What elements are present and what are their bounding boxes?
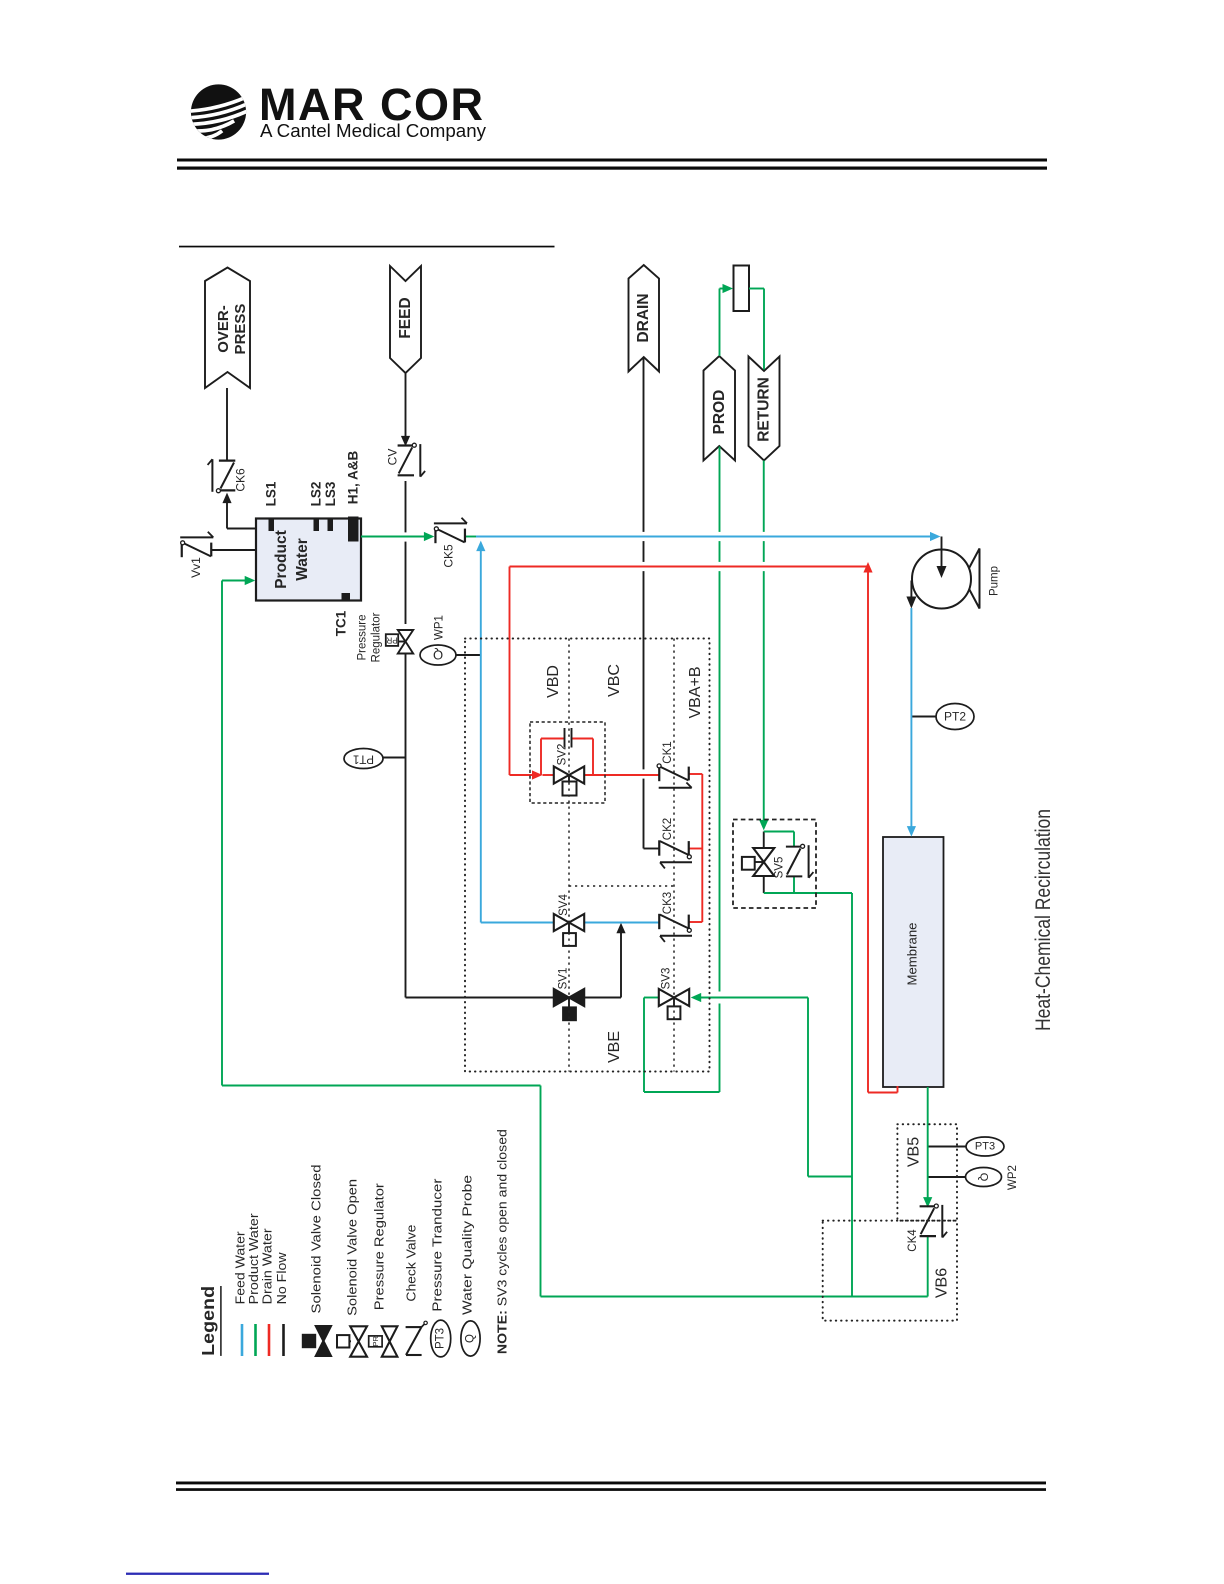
svg-text:OVER-: OVER- bbox=[215, 305, 232, 353]
svg-text:CK4: CK4 bbox=[907, 1229, 919, 1252]
svg-text:TC1: TC1 bbox=[334, 610, 349, 636]
svg-text:VBE: VBE bbox=[606, 1031, 623, 1063]
svg-text:CK6: CK6 bbox=[234, 468, 248, 492]
svg-text:VB5: VB5 bbox=[906, 1137, 923, 1167]
svg-text:Water Quality Probe: Water Quality Probe bbox=[460, 1175, 475, 1315]
svg-text:Q: Q bbox=[433, 648, 443, 663]
svg-text:Heat-Chemical Recirculation: Heat-Chemical Recirculation bbox=[1031, 809, 1055, 1031]
svg-text:LS3: LS3 bbox=[323, 481, 338, 506]
svg-text:LS1: LS1 bbox=[264, 481, 279, 506]
svg-text:Solenoid Valve Closed: Solenoid Valve Closed bbox=[309, 1165, 324, 1314]
svg-text:CV: CV bbox=[386, 449, 400, 466]
svg-text:Q: Q bbox=[465, 1334, 477, 1343]
svg-text:LS2: LS2 bbox=[309, 482, 324, 507]
svg-text:Pressure Regulator: Pressure Regulator bbox=[372, 1182, 387, 1310]
svg-text:PRESS: PRESS bbox=[232, 304, 249, 355]
svg-text:A Cantel Medical Company: A Cantel Medical Company bbox=[260, 120, 487, 141]
svg-text:PT3: PT3 bbox=[975, 1141, 995, 1153]
svg-text:NOTE: SV3 cycles open and clos: NOTE: SV3 cycles open and closed bbox=[495, 1129, 510, 1354]
svg-text:PT2: PT2 bbox=[944, 710, 966, 724]
svg-text:SV4: SV4 bbox=[558, 894, 570, 916]
svg-text:CK2: CK2 bbox=[662, 818, 674, 840]
svg-text:SV5: SV5 bbox=[774, 857, 786, 879]
svg-text:Legend: Legend bbox=[198, 1286, 218, 1356]
svg-text:SV3: SV3 bbox=[661, 968, 673, 990]
svg-text:VBC: VBC bbox=[606, 664, 623, 697]
svg-text:PROD: PROD bbox=[711, 390, 728, 435]
svg-text:Regulator: Regulator bbox=[371, 612, 383, 662]
svg-text:PT1: PT1 bbox=[353, 753, 374, 765]
svg-text:Solenoid Valve Open: Solenoid Valve Open bbox=[345, 1179, 360, 1316]
svg-text:Vv1: Vv1 bbox=[189, 557, 203, 578]
svg-text:CK3: CK3 bbox=[662, 892, 674, 914]
svg-text:RETURN: RETURN bbox=[756, 377, 773, 442]
svg-text:CK5: CK5 bbox=[442, 544, 456, 568]
svg-text:CK1: CK1 bbox=[662, 741, 674, 763]
svg-text:VB6: VB6 bbox=[934, 1268, 951, 1298]
svg-text:PR: PR bbox=[386, 636, 397, 645]
svg-text:SV1: SV1 bbox=[558, 968, 570, 990]
svg-text:VBD: VBD bbox=[545, 665, 562, 698]
svg-text:WP2: WP2 bbox=[1007, 1165, 1019, 1190]
svg-text:Pump: Pump bbox=[989, 566, 1001, 596]
svg-text:Drain Water: Drain Water bbox=[260, 1228, 275, 1305]
svg-text:Membrane: Membrane bbox=[906, 922, 920, 985]
svg-text:H1, A&B: H1, A&B bbox=[346, 451, 361, 505]
svg-text:Pressure: Pressure bbox=[357, 614, 369, 660]
svg-text:PR: PR bbox=[371, 1336, 380, 1347]
svg-text:VBA+B: VBA+B bbox=[687, 666, 704, 718]
svg-text:Pressure Tranducer: Pressure Tranducer bbox=[430, 1178, 445, 1312]
svg-text:WP1: WP1 bbox=[434, 615, 446, 640]
svg-text:PT3: PT3 bbox=[435, 1328, 447, 1349]
svg-text:Check Valve: Check Valve bbox=[404, 1225, 419, 1302]
svg-text:FEED: FEED bbox=[397, 297, 414, 338]
svg-text:No Flow: No Flow bbox=[274, 1252, 289, 1305]
svg-text:DRAIN: DRAIN bbox=[635, 293, 652, 342]
svg-text:Q: Q bbox=[978, 1173, 990, 1182]
svg-text:SV2: SV2 bbox=[557, 744, 569, 766]
